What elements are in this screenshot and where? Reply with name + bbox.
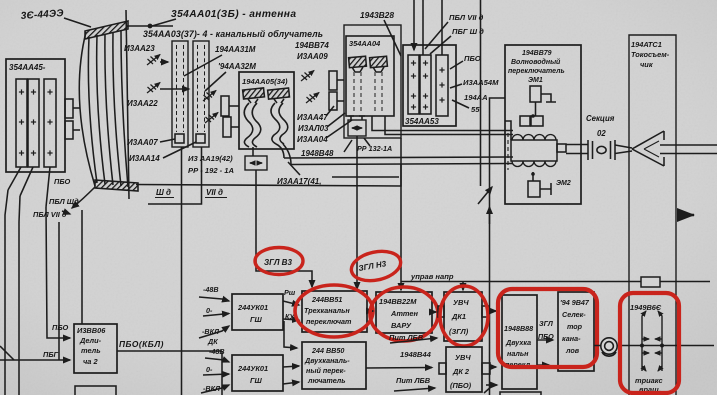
antenna base run upper	[332, 176, 399, 178]
svg-text:1948В44: 1948В44	[400, 350, 432, 359]
svg-text:ПБЛ VII д: ПБЛ VII д	[33, 210, 67, 219]
svg-text:переключат: переключат	[306, 317, 352, 326]
Rsh / KU outputs	[283, 301, 299, 305]
leader from label to dot	[152, 19, 176, 26]
label I3AA23	[124, 44, 155, 53]
feeder2 drop wire with elbow	[148, 147, 202, 204]
window connector a at 354AA04	[329, 71, 337, 90]
label I3AA04	[297, 135, 328, 144]
ZGL N3 red mark	[349, 247, 404, 285]
leader I3AA14	[163, 142, 196, 158]
wire PBL III vertical	[19, 196, 20, 395]
wire PBO vertical	[5, 190, 8, 395]
svg-text:'94 9В47: '94 9В47	[560, 298, 590, 307]
label PBG	[43, 350, 59, 359]
box 354AA04	[346, 36, 394, 116]
svg-text:ЭМ2: ЭМ2	[556, 180, 571, 187]
label 354AA01(36) - antenna	[171, 9, 296, 20]
UHF amp UVCH DK2	[446, 347, 482, 392]
svg-text:Волноводный: Волноводный	[511, 58, 561, 66]
armature tabs	[520, 116, 530, 126]
junction dots	[640, 344, 644, 348]
inputs UK01#2	[205, 358, 229, 362]
switch body	[511, 140, 557, 161]
svg-text:Аттен: Аттен	[390, 309, 418, 318]
rotary joint symbol	[601, 338, 617, 354]
svg-text:ПБЛ Щд: ПБЛ Щд	[49, 197, 79, 206]
label RR 132-1A	[357, 144, 392, 153]
arrow DK2 to 194BB88	[490, 366, 496, 368]
arrows pattern right column	[658, 311, 662, 371]
svg-text:244 ВВ50: 244 ВВ50	[311, 346, 344, 355]
svg-text:(ЗГЛ): (ЗГЛ)	[449, 327, 469, 336]
svg-text:'94АА32М: '94АА32М	[218, 62, 256, 71]
triax rotary unit 194BB66	[630, 303, 662, 312]
label PBL III d	[49, 197, 79, 206]
leader I3AA07	[160, 139, 175, 142]
horn 1 hatched	[243, 88, 265, 99]
window connector 2 at 194AA05	[223, 117, 231, 137]
wire into feeder2	[160, 88, 189, 90]
node dot on apex line	[148, 24, 153, 29]
antenna right edge (mast)	[126, 10, 129, 199]
rotating horn	[632, 131, 664, 166]
two-channel switch 244BB50	[302, 342, 366, 389]
label VII d	[206, 188, 223, 197]
wire to divider top	[81, 210, 83, 324]
antenna base line with elbow	[136, 164, 401, 186]
svg-text:354АА53: 354АА53	[405, 117, 439, 126]
label triax	[635, 376, 663, 394]
antenna left outline	[79, 32, 95, 186]
rotary joint I3AA19(42)	[245, 156, 267, 170]
ZGL V3 red mark	[255, 248, 303, 275]
leader wire from radiator 2	[20, 167, 33, 196]
svg-text:1943В28: 1943В28	[360, 10, 394, 20]
svg-text:Селек-: Селек-	[562, 310, 586, 319]
svg-text:ПБГ: ПБГ	[43, 350, 59, 359]
svg-text:354АА04: 354АА04	[349, 39, 380, 48]
horn box 194AA05(34)	[239, 72, 294, 149]
leader wire from radiator 1	[8, 167, 21, 190]
label I3AA54M	[463, 78, 499, 87]
svg-text:Ш д: Ш д	[156, 188, 171, 197]
arrows BB88 to selector	[537, 339, 553, 341]
noise generator box 244UK01 #1	[232, 294, 283, 330]
leader 32M	[205, 72, 226, 91]
svg-text:И3АА23: И3АА23	[124, 44, 155, 53]
radiator column 2	[28, 79, 39, 167]
svg-text:ПБО: ПБО	[52, 323, 68, 332]
slip-ring box 194ATC1	[629, 35, 676, 395]
inputs 244BB50	[284, 321, 297, 348]
label I3AA17(41)	[277, 177, 321, 186]
svg-text:ЗГЛ: ЗГЛ	[539, 319, 554, 328]
section 02 joint	[588, 140, 632, 160]
arrow 244BB51 to 194BB22M	[367, 310, 373, 312]
label PBL VII d	[449, 13, 484, 22]
svg-text:244УК01: 244УК01	[237, 364, 268, 373]
svg-text:РР - 192 - 1А: РР - 192 - 1А	[188, 166, 234, 175]
svg-text:194ВВ74: 194ВВ74	[295, 41, 329, 50]
svg-text:кана-: кана-	[562, 334, 581, 343]
svg-text:354АА45-: 354АА45-	[9, 63, 46, 72]
svg-text:-48В: -48В	[209, 347, 225, 356]
svg-text:VII д: VII д	[206, 188, 223, 197]
svg-text:нальн: нальн	[507, 349, 529, 358]
svg-text:244УК01: 244УК01	[237, 303, 268, 312]
label 194BB48	[301, 149, 334, 158]
label 194AA 55	[464, 93, 488, 114]
label I3AA03	[298, 124, 329, 133]
window connector b at 354AA04	[329, 92, 337, 110]
svg-text:ДК: ДК	[207, 337, 218, 346]
horn a hatched	[349, 56, 367, 67]
waveguide run from I3AA17 upper	[284, 157, 513, 158]
three-channel switch 244BB51	[302, 291, 367, 332]
label PBO	[54, 177, 70, 186]
discharger I3AA09 a	[301, 71, 314, 82]
svg-text:ПБЛ VII д: ПБЛ VII д	[449, 13, 484, 22]
svg-text:ГШ: ГШ	[250, 376, 263, 385]
svg-text:тель: тель	[81, 346, 101, 355]
svg-text:И3АА07: И3АА07	[127, 138, 158, 147]
joint drop wire to ZGL V3	[256, 170, 312, 287]
svg-text:194АТС1: 194АТС1	[631, 40, 662, 49]
feeder1 drop wire	[181, 147, 183, 395]
label PBO right	[464, 54, 481, 63]
svg-text:УВЧ: УВЧ	[455, 353, 471, 362]
tab stubs to antenna	[73, 107, 80, 109]
label I3AA47	[297, 113, 328, 122]
svg-text:1948В88: 1948В88	[504, 324, 533, 333]
label 194BB44	[400, 350, 432, 359]
label I3AA22	[127, 99, 158, 108]
label 194BB74	[295, 41, 329, 50]
label I3 AA19(42)	[188, 154, 233, 163]
antenna apex feed line	[127, 25, 173, 27]
flexible waveguide 1	[244, 103, 253, 147]
DK2 right connector	[482, 363, 490, 374]
leader 31M	[184, 55, 222, 76]
svg-text:Токосъем-: Токосъем-	[631, 50, 670, 59]
resistor on control bus	[641, 277, 660, 287]
diagonal stub lower-left	[0, 346, 14, 360]
two-channel switch 194BB88	[502, 295, 537, 389]
leader I3AA17	[288, 162, 300, 175]
horn b hatched	[370, 56, 388, 67]
waveguide switch box 194BB79	[505, 45, 581, 204]
inputs UK01#1	[199, 297, 229, 301]
svg-text:Пит ЛБВ: Пит ЛБВ	[389, 333, 424, 342]
svg-text:И3АА47: И3АА47	[297, 113, 328, 122]
faint handwritten note 36-4400	[20, 8, 64, 22]
radiator column 3	[44, 79, 56, 167]
arrow DK1 to 194BB88	[489, 310, 496, 312]
wire from RR132-1A down to ZGL N3	[356, 136, 358, 289]
label I3AA07	[127, 138, 158, 147]
second elbow	[385, 116, 513, 135]
svg-text:И3АА09: И3АА09	[297, 52, 328, 61]
svg-text:ПБО: ПБО	[54, 177, 70, 186]
output 244BB50 to DK2	[366, 367, 432, 370]
red mark around 244BB51	[295, 285, 373, 337]
attenuator 194BB22M	[376, 292, 432, 333]
Pit LBV wire 1	[390, 338, 437, 343]
svg-text:И3АА04: И3АА04	[297, 135, 328, 144]
red mark around DK1	[440, 286, 488, 346]
discharger I3AA22	[147, 83, 160, 94]
discharger I3AA09 b	[306, 93, 319, 104]
svg-text:1948В48: 1948В48	[301, 149, 334, 158]
svg-text:ПБО(КБЛ): ПБО(КБЛ)	[119, 339, 164, 349]
output wire PBO(KBL)	[117, 350, 222, 352]
long vertical from top at 480	[480, 0, 482, 186]
small arrow near labels	[62, 211, 70, 214]
feeder waveguide 2 (194AA32M)	[193, 41, 209, 147]
svg-text:02: 02	[597, 129, 606, 138]
svg-text:ЗГЛ В3: ЗГЛ В3	[264, 258, 292, 267]
left step bracket	[505, 121, 511, 140]
cable entry arrow at switch bottom	[478, 187, 492, 204]
svg-text:ГШ: ГШ	[250, 315, 263, 324]
svg-text:ВАРУ: ВАРУ	[391, 321, 412, 330]
phase shifter column 2	[420, 55, 431, 114]
arrow up into switch bottom	[489, 207, 491, 224]
svg-text:ЭМ1: ЭМ1	[528, 77, 543, 84]
lower divider box (cut)	[75, 386, 116, 395]
svg-text:Трехканальн: Трехканальн	[304, 306, 350, 315]
svg-text:-ВКЛ: -ВКЛ	[202, 327, 220, 336]
svg-text:ПБГ Ш д: ПБГ Ш д	[452, 27, 484, 36]
first stage box (cut)	[500, 392, 541, 395]
red mark around 194BB22M	[370, 287, 438, 341]
svg-text:-ВКЛ: -ВКЛ	[203, 384, 221, 393]
phase shifter column 1	[408, 55, 419, 114]
label 354AA03(37) 4-channel feed	[143, 29, 323, 39]
flexible waveguide 2	[271, 103, 280, 144]
labels ZGL PBO	[538, 319, 554, 341]
svg-text:0-: 0-	[206, 365, 213, 374]
svg-text:194АА05(34): 194АА05(34)	[242, 77, 288, 86]
horn output lines	[660, 144, 717, 146]
label 194BB28	[360, 10, 394, 20]
output stub	[557, 144, 566, 152]
svg-text:ПБО: ПБО	[464, 54, 481, 63]
big red mark around BB88 and selector	[498, 289, 597, 367]
label Sektsiya 02	[586, 114, 615, 138]
wire to divider input 1	[46, 207, 70, 338]
DK1 right connector	[482, 306, 489, 317]
switch rotor bottom scallops	[512, 161, 556, 167]
switch rotor top scallops	[512, 135, 556, 141]
horn 2 hatched	[268, 88, 290, 99]
output line to rotary joint	[594, 345, 714, 347]
label ZGL N3	[358, 259, 388, 273]
channel selector 194BB47	[558, 292, 594, 371]
label ZGL V3	[264, 258, 292, 267]
red mark around 194BB66	[620, 293, 679, 393]
svg-text:354АА01(ЗБ) - антенна: 354АА01(ЗБ) - антенна	[171, 9, 296, 20]
arrow 22M to DK1	[432, 311, 436, 313]
waveguide run from I3AA17 lower	[291, 164, 513, 165]
control feed line VII	[422, 0, 424, 55]
radiator column 1	[16, 79, 27, 167]
svg-text:194АА31М: 194АА31М	[215, 45, 256, 54]
svg-text:УВЧ: УВЧ	[453, 298, 469, 307]
label EM2	[556, 180, 571, 187]
noise generator box 244UK01 #2	[232, 355, 283, 391]
waveguide1 exit to rotary joint	[252, 147, 254, 156]
label RR-192-1A	[188, 166, 234, 175]
leader wire from radiator 3	[46, 167, 50, 207]
leader 194BB28	[384, 20, 401, 56]
svg-text:Пит ЛБВ: Пит ЛБВ	[396, 376, 431, 385]
antenna 354AA01(36): top hatched band	[85, 21, 128, 39]
svg-text:И3ВВ06: И3ВВ06	[77, 326, 106, 335]
waveguide2 exit elbow	[276, 144, 284, 158]
dashed flange left of switch body	[507, 133, 509, 170]
svg-text:ный перек-: ный перек-	[306, 366, 346, 375]
svg-text:Дели-: Дели-	[79, 336, 102, 345]
junction vertical from PBO(KBL)	[221, 351, 223, 395]
label uprav napr	[410, 272, 454, 281]
branch arrow into UVCH DK1	[462, 282, 464, 291]
label 194AA31M	[215, 45, 256, 54]
svg-text:Двухканаль-: Двухканаль-	[304, 356, 350, 365]
Pit LBV wire 2	[394, 388, 435, 391]
control feed line III	[413, 0, 415, 50]
dashed guides inside 354AA04	[354, 72, 382, 114]
svg-text:И3АА14: И3АА14	[129, 154, 160, 163]
divider input wire 2 PBG	[0, 359, 70, 361]
phase shifter column 3 (I3AA54M)	[436, 55, 448, 116]
antenna bottom tail with arrow	[72, 187, 95, 208]
label PBL VII d	[33, 210, 67, 219]
discharger at window 1	[203, 91, 216, 102]
svg-text:управ напр: управ напр	[410, 272, 454, 281]
svg-text:1949В6Є: 1949В6Є	[630, 303, 662, 312]
thick direction arrow	[681, 214, 694, 217]
arrow into BB88 lower	[486, 384, 497, 386]
svg-text:лючатель: лючатель	[307, 376, 346, 385]
box 354AA45	[6, 59, 65, 172]
svg-text:194АА: 194АА	[464, 93, 488, 102]
svg-text:Двухка: Двухка	[505, 338, 531, 347]
antenna bottom hatched band	[95, 180, 138, 191]
svg-text:чик: чик	[640, 60, 654, 69]
svg-text:(ПБО): (ПБО)	[450, 381, 472, 390]
svg-text:И3АЛ03: И3АЛ03	[298, 124, 329, 133]
svg-text:Рш: Рш	[284, 288, 296, 297]
svg-text:ДК 2: ДК 2	[452, 367, 470, 376]
wire enclosure to VARU (uprav)	[400, 138, 402, 290]
electromagnet EM2	[532, 172, 534, 181]
svg-text:РР 132-1А: РР 132-1А	[357, 144, 392, 153]
svg-text:ча 2: ча 2	[83, 357, 98, 366]
svg-text:194ВВ22М: 194ВВ22М	[379, 297, 417, 306]
UHF amp UVCH DK1	[444, 292, 482, 341]
svg-text:194ВВ79: 194ВВ79	[522, 50, 552, 57]
svg-text:тор: тор	[567, 322, 583, 331]
svg-text:0-: 0-	[206, 306, 213, 315]
window connector 1 at 194AA05	[221, 96, 229, 116]
enclosure around 354AA04	[344, 25, 401, 138]
control feed line PBO	[441, 0, 443, 55]
label 194AA32M	[218, 62, 256, 71]
switch output double line	[566, 144, 588, 146]
svg-text:55: 55	[471, 105, 480, 114]
discharger at window 2	[205, 113, 218, 124]
feeder waveguide 1 (194AA31M)	[172, 41, 188, 147]
DK1 left connector	[438, 306, 444, 317]
DK2 left connector	[439, 363, 446, 374]
box 354AA53	[403, 45, 456, 126]
side tab 1	[65, 99, 73, 118]
waveguide elbow from 354AA04 to switch (double line)	[372, 116, 513, 131]
discharge unit RR 132-1A	[348, 120, 366, 136]
discharger I3AA23	[147, 55, 160, 66]
divider box I3VV06	[74, 324, 117, 373]
control bus uprav napr	[401, 281, 710, 283]
svg-text:И3АА22: И3АА22	[127, 99, 158, 108]
svg-text:ДК1: ДК1	[451, 312, 466, 321]
wire PBL VII vertical	[58, 222, 60, 360]
arrows pattern left column	[642, 311, 646, 371]
side tab 2	[65, 121, 73, 139]
svg-text:244ВВ51: 244ВВ51	[311, 295, 342, 304]
svg-text:И3 АА19(42): И3 АА19(42)	[188, 154, 233, 163]
label I3AA14	[129, 154, 160, 163]
label I3AA09	[297, 52, 328, 61]
svg-text:триакс: триакс	[635, 376, 663, 385]
label III d	[156, 188, 171, 197]
antenna reflector ribs	[88, 37, 97, 183]
svg-text:354АА03(37)- 4 - канальный о: 354АА03(37)- 4 - канальный облучатель	[143, 29, 323, 39]
label PBO at divider input	[52, 323, 68, 332]
electromagnet EM1	[530, 86, 541, 102]
svg-text:Секция: Секция	[586, 114, 615, 123]
wire into feeder1	[160, 61, 168, 63]
long vertical from switch at 489	[490, 98, 506, 395]
svg-text:переключатель: переключатель	[508, 68, 565, 75]
leader from note to antenna	[64, 18, 91, 27]
svg-text:-48В: -48В	[203, 285, 219, 294]
label PBG III d	[452, 27, 484, 36]
label PBO(KBL)	[119, 339, 164, 349]
svg-text:лов: лов	[565, 346, 580, 355]
